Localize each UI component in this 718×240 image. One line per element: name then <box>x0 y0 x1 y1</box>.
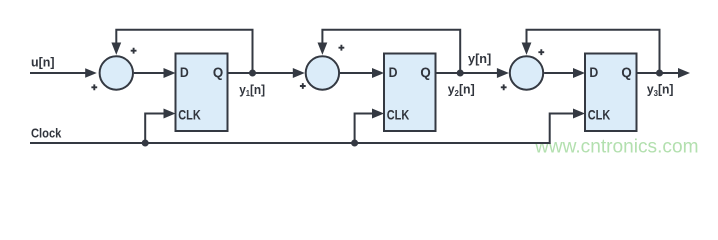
clock bus wire <box>30 114 576 144</box>
wire: clock riser to U2 CLK <box>355 114 375 144</box>
wire: clock riser to U1 CLK <box>145 114 166 144</box>
feedback wire stage 3 <box>527 30 660 73</box>
node y3 junction <box>656 70 663 77</box>
arrowhead into U3 D <box>573 68 585 78</box>
feedback wire stage 2 <box>322 30 460 73</box>
wire: U2 Q output to adder S3 <box>436 72 500 74</box>
watermark www.cntronics.com <box>534 136 698 157</box>
arrowhead into U1 D <box>164 68 176 78</box>
plus sign at S3 feedback (top-right) <box>538 49 544 55</box>
plus sign at S1 input (bottom-left) <box>91 84 97 90</box>
svg-text:y1[n]: y1[n] <box>239 83 265 98</box>
clock node at U2 riser <box>351 140 358 147</box>
svg-text:Q: Q <box>420 65 431 80</box>
adder S1 <box>100 56 133 89</box>
arrowhead into S2 <box>293 68 305 78</box>
svg-text:y3[n]: y3[n] <box>647 82 674 97</box>
svg-text:CLK: CLK <box>387 107 409 123</box>
svg-text:Q: Q <box>213 65 224 80</box>
svg-text:CLK: CLK <box>178 107 200 123</box>
svg-text:y[n]: y[n] <box>468 52 491 66</box>
svg-text:D: D <box>180 64 189 80</box>
adder S3 <box>510 56 543 89</box>
plus sign at S2 input (bottom-left) <box>300 83 306 89</box>
svg-text:Q: Q <box>621 65 632 80</box>
svg-text:u[n]: u[n] <box>31 56 55 70</box>
arrowhead into U2 D <box>372 68 384 78</box>
svg-text:y2[n]: y2[n] <box>448 82 475 97</box>
wire: U3 Q output y3[n] <box>637 72 681 74</box>
arrowhead into S1 top <box>111 43 121 55</box>
arrowhead into S3 <box>497 68 509 78</box>
plus sign at S3 input (bottom-left) <box>501 84 507 90</box>
flip-flop U1 <box>176 54 228 132</box>
wire: U1 Q output to adder S2 <box>228 72 296 74</box>
plus sign at S2 feedback (top-right) <box>339 45 345 51</box>
arrowhead into S2 top <box>318 43 328 55</box>
node y2 junction <box>457 70 464 77</box>
wire: S1 output to FF U1 D input <box>134 72 166 74</box>
arrowhead into U2 CLK <box>372 109 384 119</box>
arrowhead into S3 top <box>522 43 532 55</box>
svg-text:D: D <box>589 64 598 80</box>
feedback wire stage 1 <box>116 30 252 73</box>
flip-flop U2 <box>384 54 436 132</box>
arrowhead output <box>678 68 690 78</box>
arrowhead into S1 <box>85 68 97 78</box>
arrowhead into U3 CLK <box>573 109 585 119</box>
svg-text:www.cntronics.com: www.cntronics.com <box>534 136 698 157</box>
adder S2 <box>306 56 339 89</box>
node y1 junction <box>249 70 256 77</box>
arrowhead into U1 CLK <box>164 109 176 119</box>
plus sign at S1 feedback (top-right) <box>131 48 137 54</box>
svg-text:D: D <box>389 64 398 80</box>
wire: S3 output to FF U3 D input <box>544 72 575 74</box>
clock node at U1 riser <box>142 140 149 147</box>
wire: input u[n] into adder S1 <box>30 72 88 74</box>
wire: S2 output to FF U2 D input <box>340 72 375 74</box>
svg-text:CLK: CLK <box>588 107 610 123</box>
svg-text:Clock: Clock <box>31 126 61 140</box>
flip-flop U3 <box>585 54 637 132</box>
